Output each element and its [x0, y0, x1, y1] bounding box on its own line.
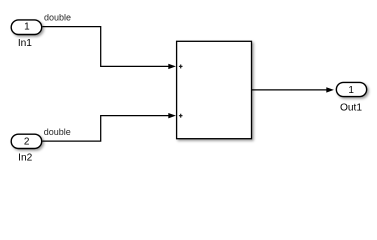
- sum block U1: [177, 41, 252, 138]
- wire Sum to Out1: [252, 89, 328, 91]
- svg-text:In2: In2: [18, 153, 32, 164]
- svg-text:1: 1: [348, 85, 354, 96]
- wire In2 to Sum: [42, 116, 169, 141]
- arrowhead into Sum input 2: [168, 113, 176, 118]
- svg-text:In1: In1: [18, 38, 32, 49]
- inport In1: [11, 20, 42, 49]
- arrowhead into Sum input 1: [168, 64, 176, 69]
- svg-text:double: double: [44, 13, 71, 23]
- arrowhead into Out1: [326, 87, 334, 92]
- svg-text:2: 2: [24, 136, 30, 147]
- inport In2: [11, 134, 42, 163]
- plus sign port 2: [179, 114, 183, 118]
- wire In1 to Sum: [42, 27, 169, 67]
- svg-text:1: 1: [24, 22, 30, 33]
- svg-text:Out1: Out1: [340, 103, 362, 114]
- outport Out1: [336, 82, 366, 113]
- svg-text:double: double: [44, 127, 71, 137]
- plus sign port 1: [179, 65, 183, 69]
